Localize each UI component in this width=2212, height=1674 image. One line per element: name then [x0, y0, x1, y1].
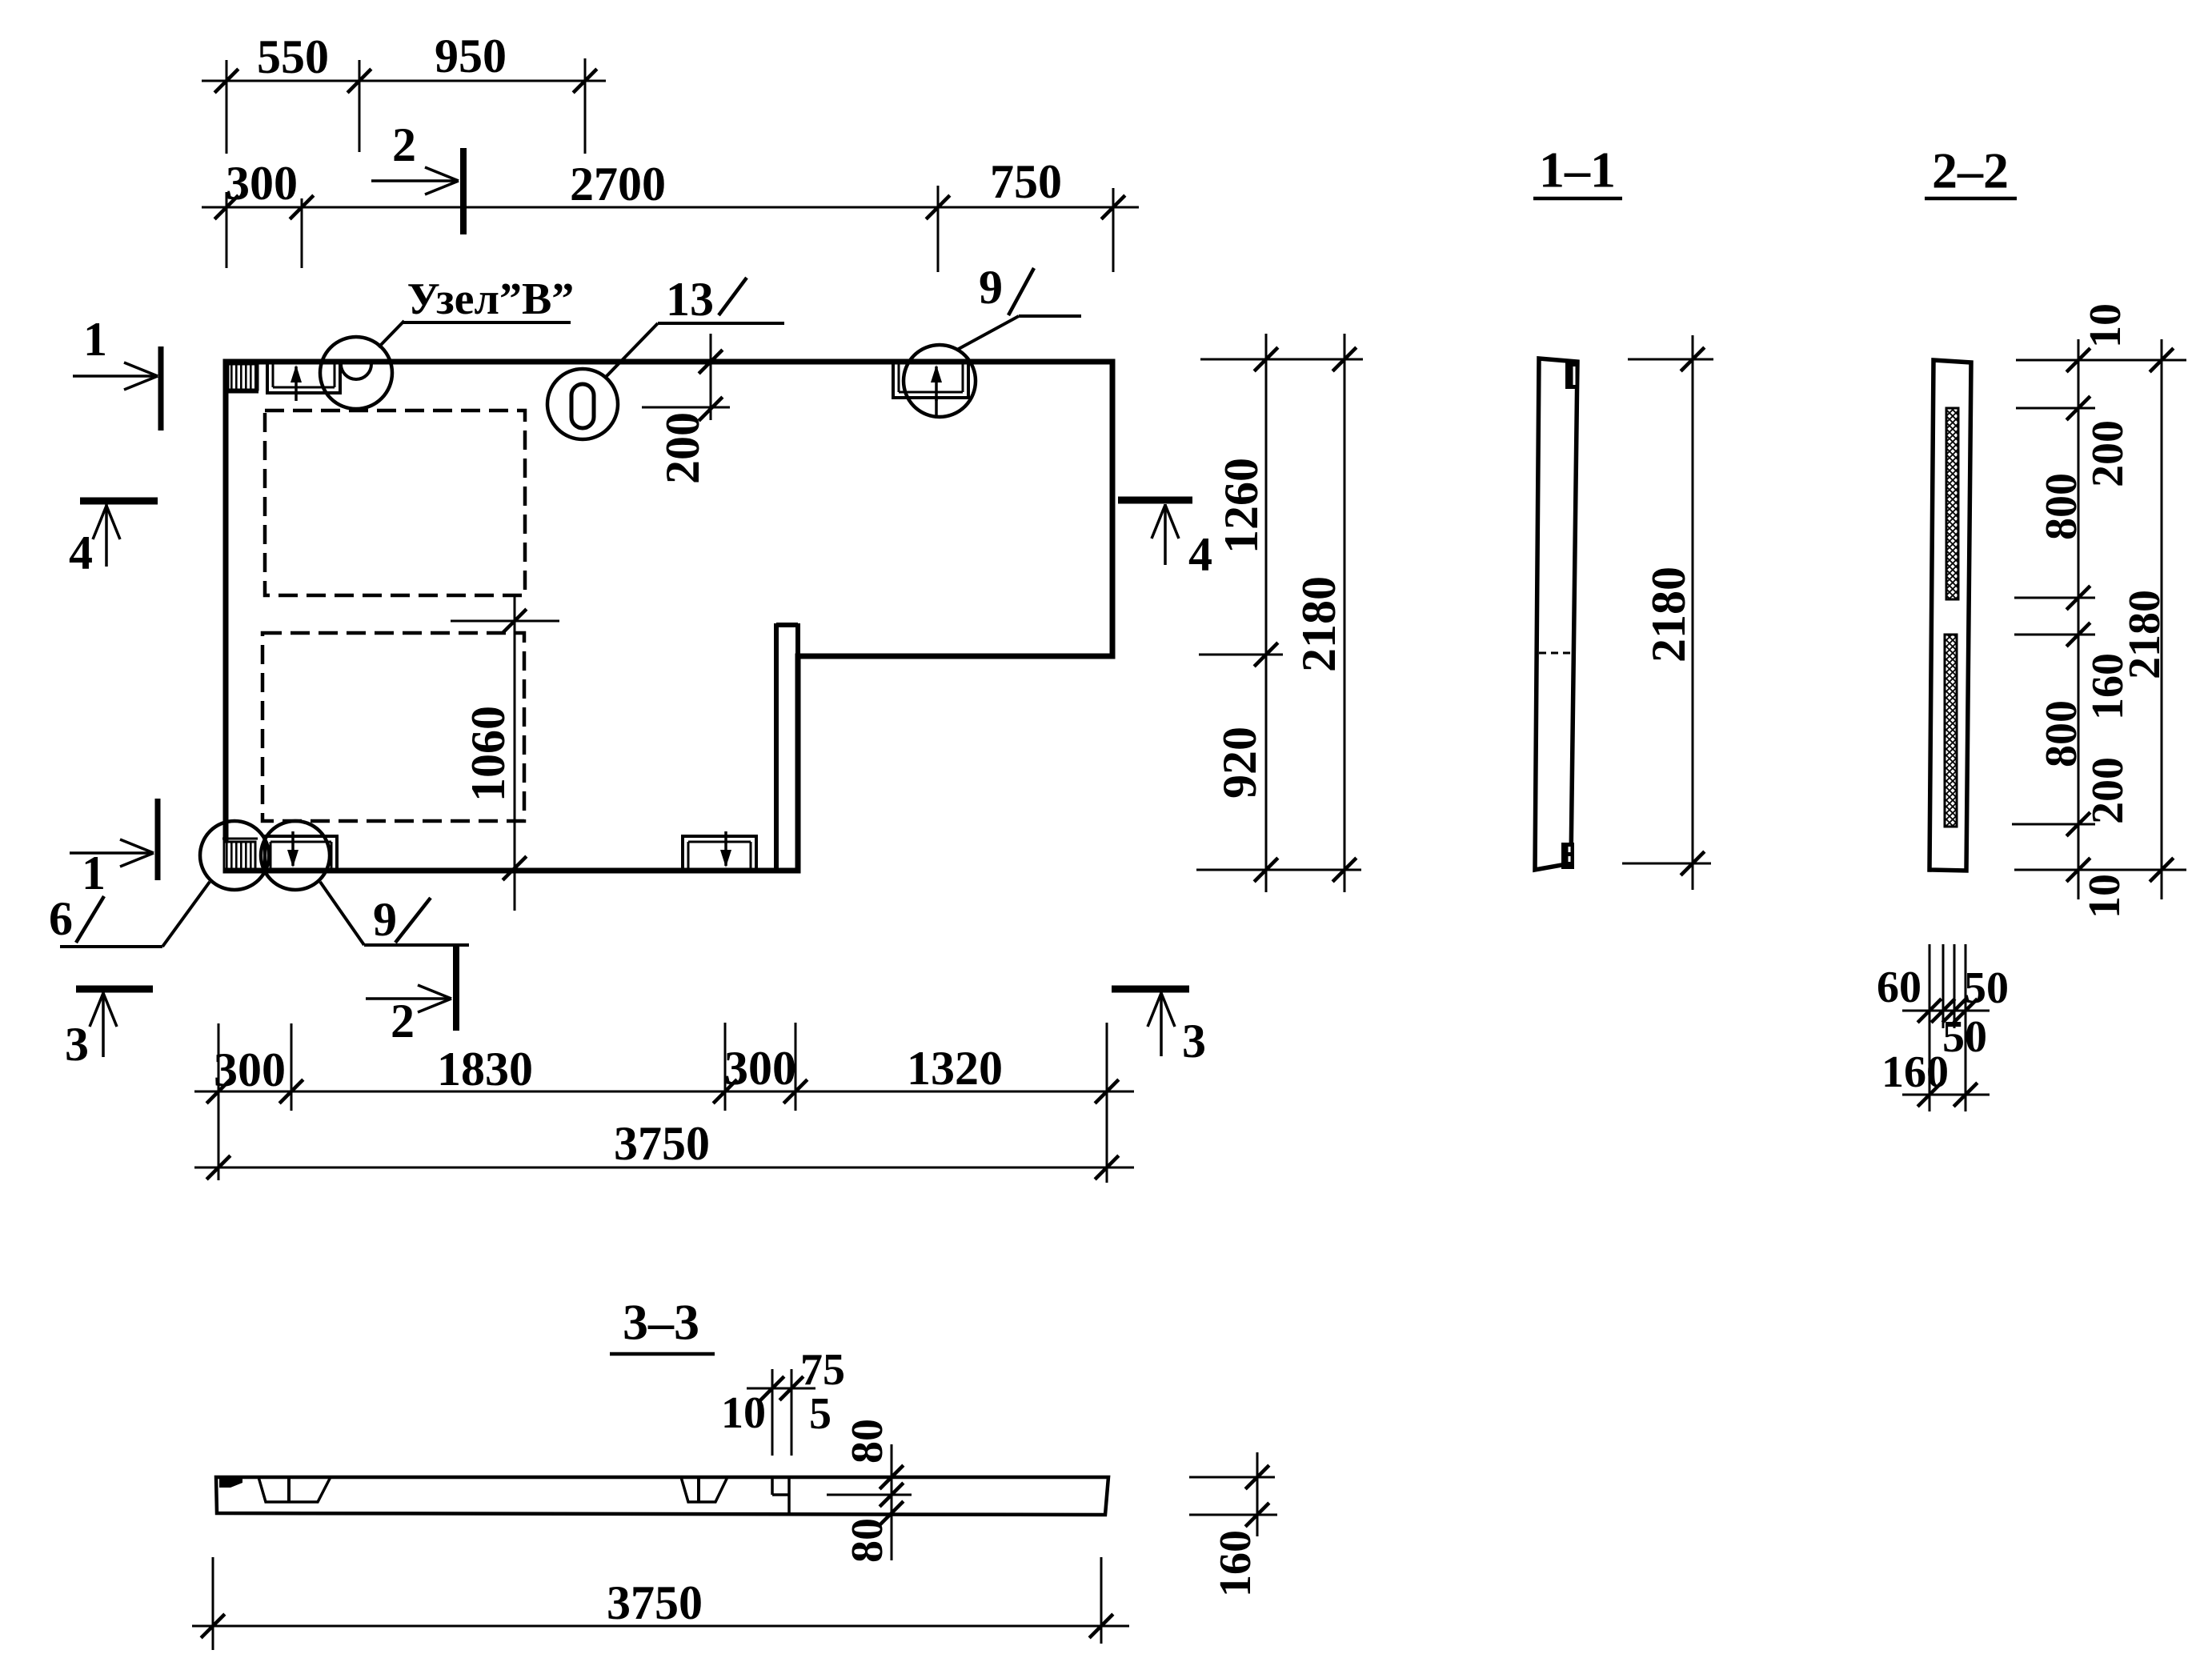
bottom dimension 3750 (plan) [194, 1167, 1134, 1169]
section 2-2 bottom mini dims 60/50/50/160 [1929, 944, 1931, 1111]
section 1-1 bottom-right notch [1561, 843, 1574, 869]
svg-text:750: 750 [990, 155, 1062, 208]
node circle Uzel V [320, 337, 392, 409]
section 3-3 mid-plane line [827, 1494, 912, 1496]
section 1-1 mid dashed line [1539, 652, 1574, 655]
svg-text:3: 3 [1182, 1015, 1206, 1067]
svg-text:80: 80 [843, 1419, 892, 1464]
section mark 3 right [1112, 986, 1189, 993]
detail circle 9 bottom [261, 821, 330, 890]
svg-text:80: 80 [843, 1518, 892, 1563]
section mark 2 bottom [453, 946, 459, 1031]
svg-text:4: 4 [1188, 528, 1212, 581]
svg-text:6: 6 [49, 892, 73, 945]
right-side dimension 2180 [1344, 334, 1346, 892]
section 3-3 left end wedge [219, 1479, 242, 1488]
embedded plate (hatched), top-left corner [228, 364, 258, 390]
section 2-2 body [1929, 360, 1971, 871]
svg-text:1: 1 [82, 847, 106, 899]
dimension 200 (hole offset) [710, 334, 712, 420]
svg-text:1–1: 1–1 [1539, 142, 1616, 198]
lifting loop box, bottom-right [683, 836, 756, 871]
section 3-3 dimension 3750 [192, 1625, 1129, 1628]
section 3-3 body [216, 1477, 1108, 1515]
svg-text:950: 950 [435, 30, 507, 82]
svg-text:550: 550 [257, 30, 329, 83]
panel outline (plan) [226, 362, 1112, 871]
svg-text:50: 50 [1942, 1012, 1987, 1062]
svg-text:1260: 1260 [1215, 458, 1268, 554]
svg-text:2–2: 2–2 [1932, 142, 2009, 199]
lifting loop box, top-right [893, 362, 968, 398]
section 3-3 rib notch [771, 1477, 774, 1495]
svg-text:10: 10 [2080, 874, 2130, 919]
embedded plate (hatched), bottom-left corner [224, 842, 255, 869]
svg-text:4: 4 [69, 527, 93, 579]
section mark 1 bottom [155, 799, 161, 880]
svg-text:160: 160 [1211, 1530, 1260, 1597]
svg-text:1320: 1320 [907, 1042, 1003, 1095]
section 2-2 dimension chain 10/200/800/160/800/200/10 [2078, 339, 2080, 899]
section 2-2 hatched slot upper [1946, 408, 1958, 599]
section 3-3 loop recess left [258, 1477, 331, 1502]
svg-text:9: 9 [979, 261, 1003, 314]
detail circle 6 [200, 821, 269, 890]
section 3-3 dimension 80/80 [891, 1444, 893, 1560]
section 1-1 top-right notch [1565, 362, 1579, 389]
section 2-2 overall dimension 2180 [2161, 339, 2163, 899]
svg-text:920: 920 [1213, 727, 1266, 799]
svg-text:60: 60 [1877, 963, 1921, 1012]
svg-text:300: 300 [226, 157, 298, 210]
section 3-3 dimension 160 [1256, 1452, 1259, 1536]
dimension line 300/2700/750 [202, 206, 1139, 209]
svg-text:3750: 3750 [614, 1117, 710, 1170]
svg-text:3750: 3750 [607, 1576, 703, 1629]
dimension 1060 [514, 597, 516, 911]
svg-text:160: 160 [1881, 1047, 1949, 1097]
dashed opening rectangle 1 [265, 410, 525, 595]
detail circle 9 top [904, 345, 976, 417]
svg-text:75: 75 [800, 1345, 845, 1395]
section 1-1 dimension 2180 [1692, 335, 1694, 890]
svg-text:2180: 2180 [1642, 567, 1695, 663]
svg-text:800: 800 [2037, 700, 2086, 767]
svg-text:800: 800 [2037, 473, 2086, 540]
loop anchor arrow, top-left [295, 366, 298, 401]
rib / edge flange at door opening [774, 623, 779, 871]
lifting loop box, bottom-left [265, 836, 337, 871]
svg-text:2: 2 [392, 118, 416, 171]
svg-text:1: 1 [83, 313, 107, 366]
svg-text:9: 9 [373, 893, 397, 946]
svg-text:10: 10 [2081, 303, 2130, 348]
section mark 1 top [158, 346, 164, 431]
svg-text:5: 5 [809, 1389, 832, 1439]
lifting loop box, top-left [267, 362, 340, 393]
svg-text:3–3: 3–3 [623, 1294, 699, 1351]
section mark 3 left [76, 986, 153, 993]
svg-text:200: 200 [2083, 420, 2133, 487]
svg-text:200: 200 [2083, 757, 2133, 824]
small loop arc inside node circle [341, 364, 371, 379]
hole (oval) with circle mark 13 [571, 384, 594, 428]
svg-text:3: 3 [65, 1018, 89, 1071]
dimension line 550/950 [202, 80, 606, 82]
right-side dimension 1260/920 [1265, 334, 1268, 892]
svg-text:10: 10 [721, 1388, 766, 1438]
loop anchor arrow, top-right [935, 366, 938, 401]
svg-text:1830: 1830 [437, 1043, 533, 1095]
section 3-3 mini dims 75/10/5 [771, 1369, 774, 1456]
svg-text:2180: 2180 [1292, 576, 1345, 672]
svg-text:2180: 2180 [2120, 590, 2170, 679]
dashed opening rectangle 2 [262, 633, 524, 821]
svg-text:13: 13 [666, 273, 714, 326]
svg-text:300: 300 [214, 1043, 286, 1096]
section 1-1 body [1535, 358, 1577, 870]
bottom dimension 300/1830/300/1320 [194, 1091, 1134, 1093]
svg-text:2: 2 [391, 995, 415, 1047]
section 2-2 hatched slot lower [1945, 635, 1957, 827]
svg-text:2700: 2700 [570, 158, 666, 210]
svg-text:1060: 1060 [462, 706, 515, 802]
svg-text:300: 300 [724, 1042, 796, 1095]
section mark 2 top [460, 148, 467, 234]
loop anchor arrow, bottom-right [724, 831, 727, 866]
loop anchor arrow, bottom-left [291, 831, 295, 866]
section mark 4 left [80, 498, 158, 505]
svg-text:200: 200 [656, 412, 709, 484]
svg-text:50: 50 [1964, 963, 2009, 1013]
svg-text:Узел”В”: Узел”В” [407, 274, 575, 324]
section 3-3 loop recess right [681, 1477, 727, 1502]
section mark 4 right [1118, 497, 1192, 504]
